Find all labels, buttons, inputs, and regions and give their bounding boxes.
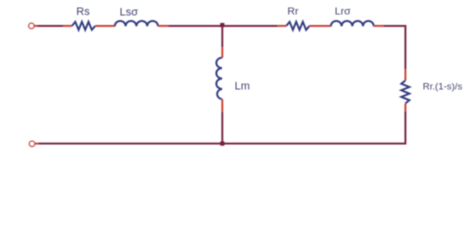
wire (Lro to top-right corner, down to resistor) (374, 26, 406, 81)
wire (Lso to node A) (158, 25, 222, 27)
svg-text:Rr.(1-s)/s: Rr.(1-s)/s (423, 82, 463, 93)
svg-text:Lrσ: Lrσ (335, 6, 351, 18)
label Rs (76, 6, 90, 18)
terminal T1 (top-left open circle) (29, 23, 34, 28)
node A (top junction) (220, 23, 224, 27)
svg-text:Rs: Rs (76, 6, 90, 18)
label Rr.(1-s)/s (423, 82, 463, 93)
wire (node A down to inductor Lm) (221, 26, 223, 58)
resistor Rr (286, 22, 309, 30)
inductor Lro (rotor leakage) (331, 21, 374, 26)
wire (bottom rail: node B to terminal T2) (35, 143, 223, 145)
inductor Lso (stator leakage) (115, 21, 158, 26)
svg-text:Rr: Rr (287, 5, 299, 17)
label Lm (235, 81, 250, 93)
label Rr (287, 5, 299, 17)
inductor Lm (magnetizing, vertical) (216, 58, 222, 100)
wire (between Rr and Lro, red pin stubs) (310, 25, 331, 27)
label Lro (335, 6, 351, 18)
resistor Rs (72, 22, 95, 30)
wire (inductor Lm to node B) (221, 99, 223, 143)
wire (resistor to bottom-right corner and bottom rail) (222, 103, 405, 143)
wire (between Rs and Lso, red pin stubs) (95, 25, 115, 27)
wire (node A to resistor Rr) (222, 25, 286, 27)
resistor Rr.(1-s)/s (vertical) (401, 81, 409, 104)
label Lso (120, 6, 139, 18)
wire (top-left: terminal to resistor Rs) (34, 25, 72, 27)
node B (bottom junction) (220, 142, 224, 146)
terminal T2 (bottom-left open circle) (29, 141, 34, 146)
svg-text:Lm: Lm (235, 81, 250, 93)
svg-text:Lsσ: Lsσ (120, 6, 139, 18)
